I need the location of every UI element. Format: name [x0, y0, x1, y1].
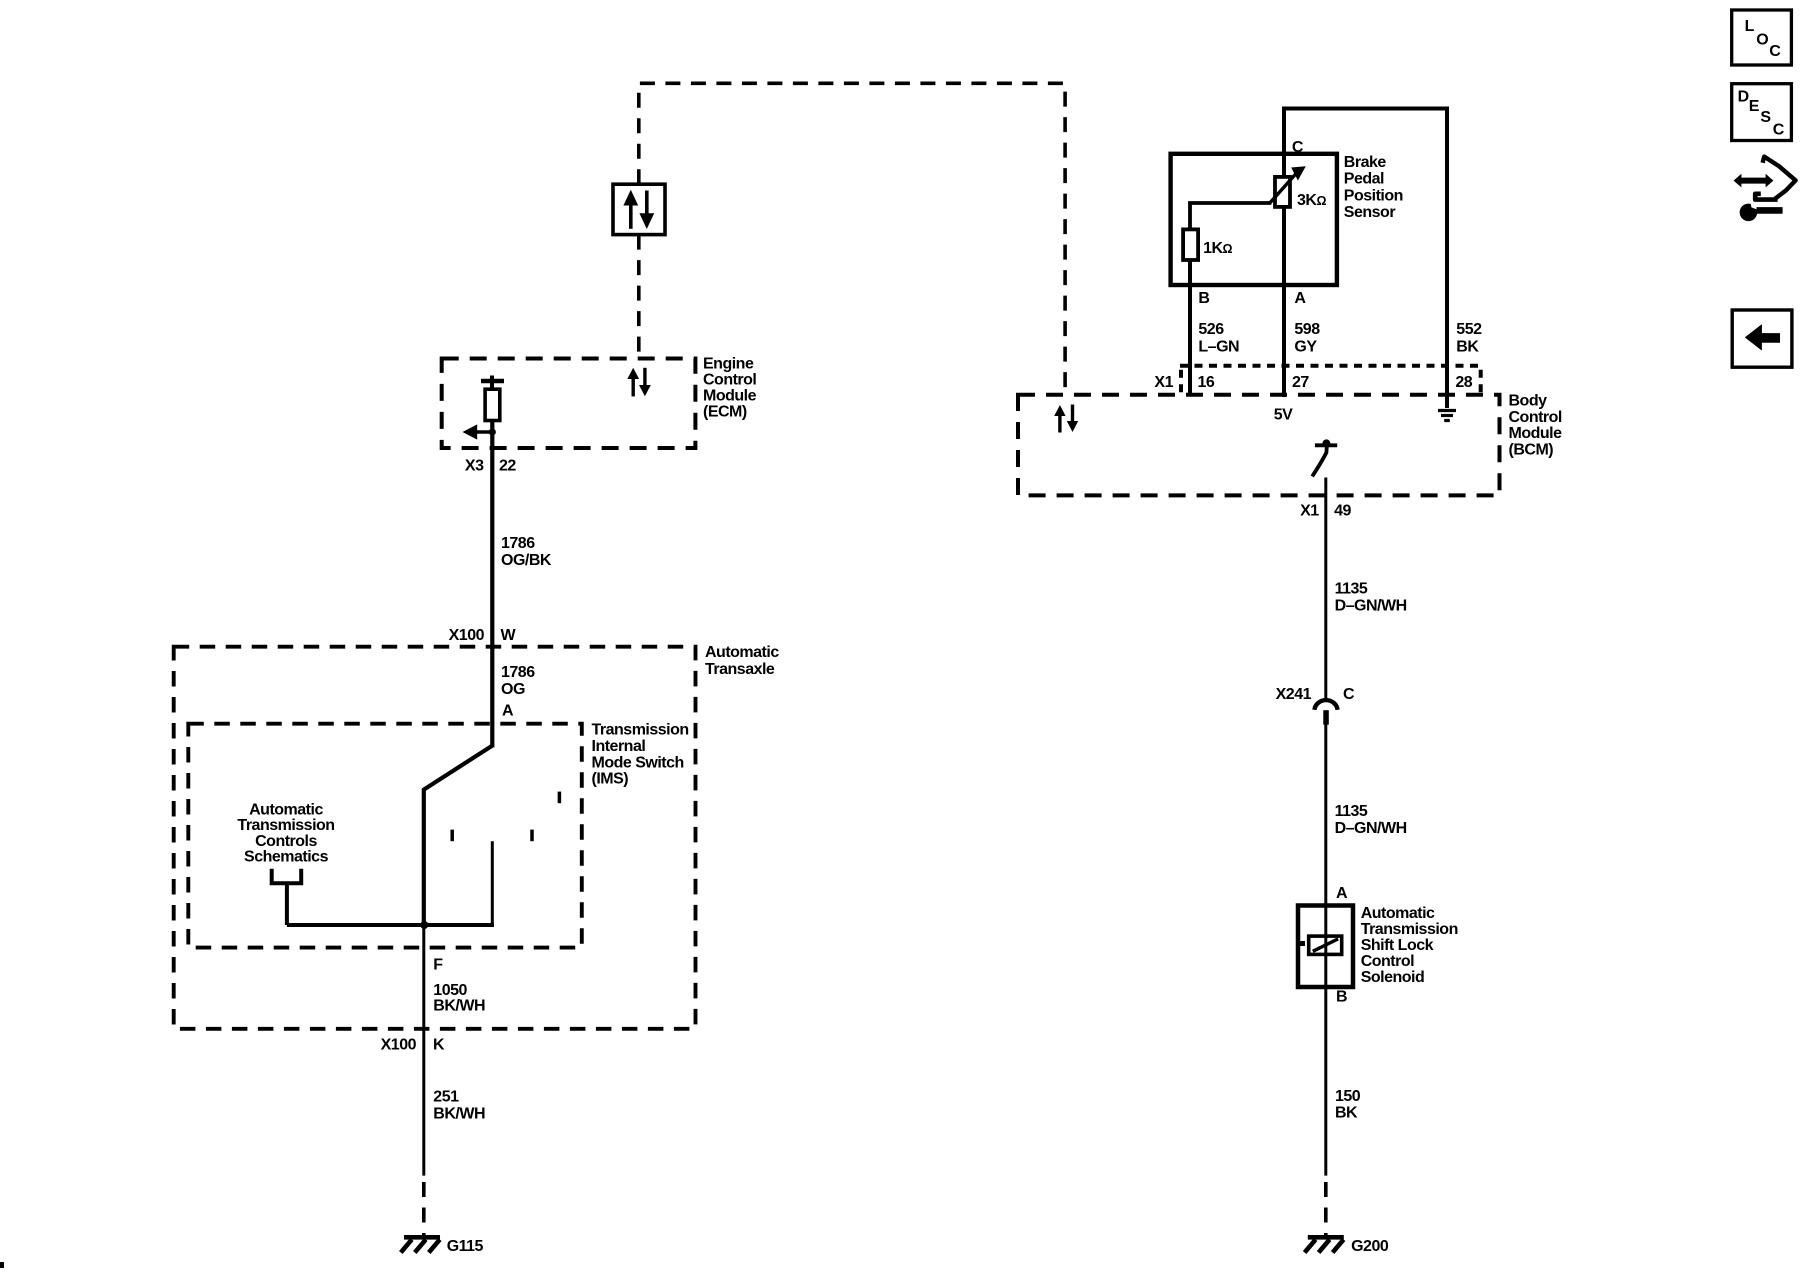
svg-text:251: 251 [433, 1089, 459, 1106]
svg-text:BK/WH: BK/WH [433, 998, 485, 1015]
svg-text:X100: X100 [381, 1037, 417, 1054]
svg-text:Transmission: Transmission [592, 722, 689, 739]
IMS switch wiper wire [424, 746, 493, 927]
svg-text:K: K [433, 1037, 445, 1054]
wire BCM to X241 [1324, 495, 1327, 698]
IMS box [188, 724, 582, 948]
svg-text:Automatic: Automatic [1361, 905, 1435, 922]
svg-text:Body: Body [1509, 393, 1548, 410]
svg-text:D–GN/WH: D–GN/WH [1335, 598, 1407, 615]
svg-text:1135: 1135 [1335, 803, 1368, 820]
wire B [1188, 260, 1192, 395]
svg-text:GY: GY [1294, 338, 1317, 355]
resistor 1K [1183, 229, 1198, 260]
icon LOC box [1732, 10, 1792, 65]
wire: dashed from DLC to ECM [637, 235, 641, 359]
svg-text:1786: 1786 [501, 535, 535, 552]
svg-text:S: S [1760, 109, 1771, 126]
icon back arrow box [1732, 310, 1792, 367]
svg-text:W: W [501, 627, 517, 644]
svg-text:F: F [433, 957, 443, 974]
data link connector symbol [613, 184, 665, 234]
svg-text:Mode Switch: Mode Switch [592, 754, 684, 771]
svg-text:C: C [1773, 122, 1785, 139]
svg-text:OG: OG [501, 681, 525, 698]
svg-text:3KΩ: 3KΩ [1297, 192, 1326, 209]
svg-text:1KΩ: 1KΩ [1203, 240, 1232, 257]
sensor label [1344, 154, 1403, 221]
svg-text:552: 552 [1456, 321, 1482, 338]
ECM internal resistor [485, 389, 500, 420]
icon DESC box [1732, 84, 1792, 141]
svg-text:Position: Position [1344, 187, 1403, 204]
svg-text:Control: Control [703, 372, 756, 389]
ECM internal supply cross [490, 376, 494, 390]
BCM switch [1315, 443, 1337, 447]
IMS bus wire [287, 923, 494, 927]
page edge mark [0, 1262, 4, 1268]
svg-text:49: 49 [1334, 503, 1351, 520]
svg-text:598: 598 [1294, 321, 1320, 338]
wire A [1282, 207, 1286, 397]
svg-text:Transaxle: Transaxle [705, 661, 775, 678]
svg-text:X3: X3 [465, 457, 484, 474]
svg-text:G200: G200 [1351, 1238, 1389, 1255]
svg-text:Module: Module [703, 388, 757, 405]
svg-text:Controls: Controls [255, 833, 317, 850]
svg-text:D–GN/WH: D–GN/WH [1335, 820, 1407, 837]
svg-text:Automatic: Automatic [705, 644, 779, 661]
svg-text:BK/WH: BK/WH [433, 1106, 485, 1123]
svg-text:E: E [1749, 98, 1760, 115]
svg-text:1050: 1050 [433, 982, 467, 999]
svg-text:Sensor: Sensor [1344, 204, 1396, 221]
BCM internal ground symbol [1438, 411, 1456, 421]
svg-text:16: 16 [1198, 374, 1215, 391]
svg-text:C: C [1769, 43, 1781, 60]
solenoid box [1298, 906, 1353, 988]
schematics reference bracket [270, 869, 304, 925]
X1 connector strip [1180, 364, 1482, 368]
svg-text:Shift Lock: Shift Lock [1361, 937, 1434, 954]
svg-text:1786: 1786 [501, 664, 535, 681]
svg-text:28: 28 [1455, 374, 1472, 391]
svg-text:(IMS): (IMS) [592, 771, 629, 788]
wire solenoid to G200 [1324, 987, 1327, 1176]
svg-text:Control: Control [1361, 953, 1414, 970]
svg-text:B: B [1198, 290, 1209, 307]
svg-text:O: O [1756, 32, 1768, 49]
switch contact tick 2 [530, 830, 534, 842]
svg-text:C: C [1343, 686, 1355, 703]
BCM label [1509, 393, 1563, 459]
svg-text:B: B [1336, 989, 1347, 1006]
svg-text:Pedal: Pedal [1344, 171, 1384, 188]
svg-text:(BCM): (BCM) [1509, 441, 1554, 458]
potentiometer 3K [1275, 177, 1290, 207]
Automatic Transmission Controls Schematics label [237, 801, 334, 865]
svg-text:C: C [1292, 139, 1304, 156]
svg-text:G115: G115 [447, 1238, 484, 1255]
wire below ECM resistor [490, 421, 494, 449]
F contact line [491, 841, 494, 925]
svg-text:X100: X100 [449, 627, 485, 644]
ECM label [703, 356, 757, 421]
IMS label [592, 722, 689, 788]
switch contact tick 1 [450, 830, 454, 842]
solenoid coil [1309, 936, 1342, 954]
BCM serial data arrows [1054, 405, 1078, 433]
svg-text:X1: X1 [1154, 374, 1173, 391]
svg-text:526: 526 [1198, 321, 1224, 338]
svg-text:Brake: Brake [1344, 154, 1387, 171]
ECM module box [442, 359, 696, 449]
svg-text:22: 22 [499, 457, 516, 474]
ECM serial data arrows [627, 368, 651, 397]
svg-text:L: L [1745, 18, 1755, 35]
svg-text:27: 27 [1292, 374, 1309, 391]
ground G200 [1305, 1237, 1344, 1252]
Brake Pedal Position Sensor box [1171, 154, 1337, 285]
dashed wire to G115 [422, 1182, 426, 1236]
solenoid label [1361, 905, 1458, 986]
svg-text:OG/BK: OG/BK [501, 552, 552, 569]
svg-text:Solenoid: Solenoid [1361, 969, 1425, 986]
BCM module box [1018, 395, 1500, 496]
svg-text:Transmission: Transmission [237, 817, 334, 834]
wire ECM to IMS [490, 448, 494, 747]
svg-text:A: A [502, 702, 514, 719]
svg-text:X241: X241 [1276, 686, 1312, 703]
svg-text:Internal: Internal [592, 738, 646, 755]
wiper wire [1190, 203, 1271, 229]
svg-text:Engine: Engine [703, 356, 754, 373]
svg-text:5V: 5V [1274, 407, 1293, 424]
wire X241 to solenoid [1324, 724, 1327, 907]
svg-text:A: A [1294, 290, 1306, 307]
svg-text:Control: Control [1509, 409, 1562, 426]
ECM output arrow [475, 430, 493, 433]
svg-text:A: A [1336, 885, 1348, 902]
svg-text:Transmission: Transmission [1361, 921, 1458, 938]
switch contact tick 3 [558, 792, 562, 804]
svg-text:Automatic: Automatic [249, 801, 323, 818]
svg-text:BK: BK [1335, 1105, 1358, 1122]
icon schematic reference (arrows and wrench) [1734, 157, 1796, 222]
svg-text:1135: 1135 [1335, 580, 1368, 597]
wire through solenoid [1324, 906, 1327, 987]
wire C [1284, 109, 1447, 409]
svg-text:L–GN: L–GN [1198, 338, 1239, 355]
ground G115 [401, 1237, 440, 1252]
svg-text:D: D [1738, 88, 1749, 105]
wire: serial data dashed bus horizontal top [639, 83, 1065, 395]
svg-text:BK: BK [1456, 338, 1479, 355]
svg-text:Schematics: Schematics [244, 849, 329, 866]
svg-text:150: 150 [1335, 1088, 1361, 1105]
junction dot [420, 921, 428, 929]
svg-text:Module: Module [1509, 425, 1563, 442]
svg-text:X1: X1 [1300, 503, 1319, 520]
connector X241 symbol [1314, 700, 1337, 710]
svg-text:(ECM): (ECM) [703, 404, 747, 421]
Automatic Transaxle box [174, 647, 696, 1029]
